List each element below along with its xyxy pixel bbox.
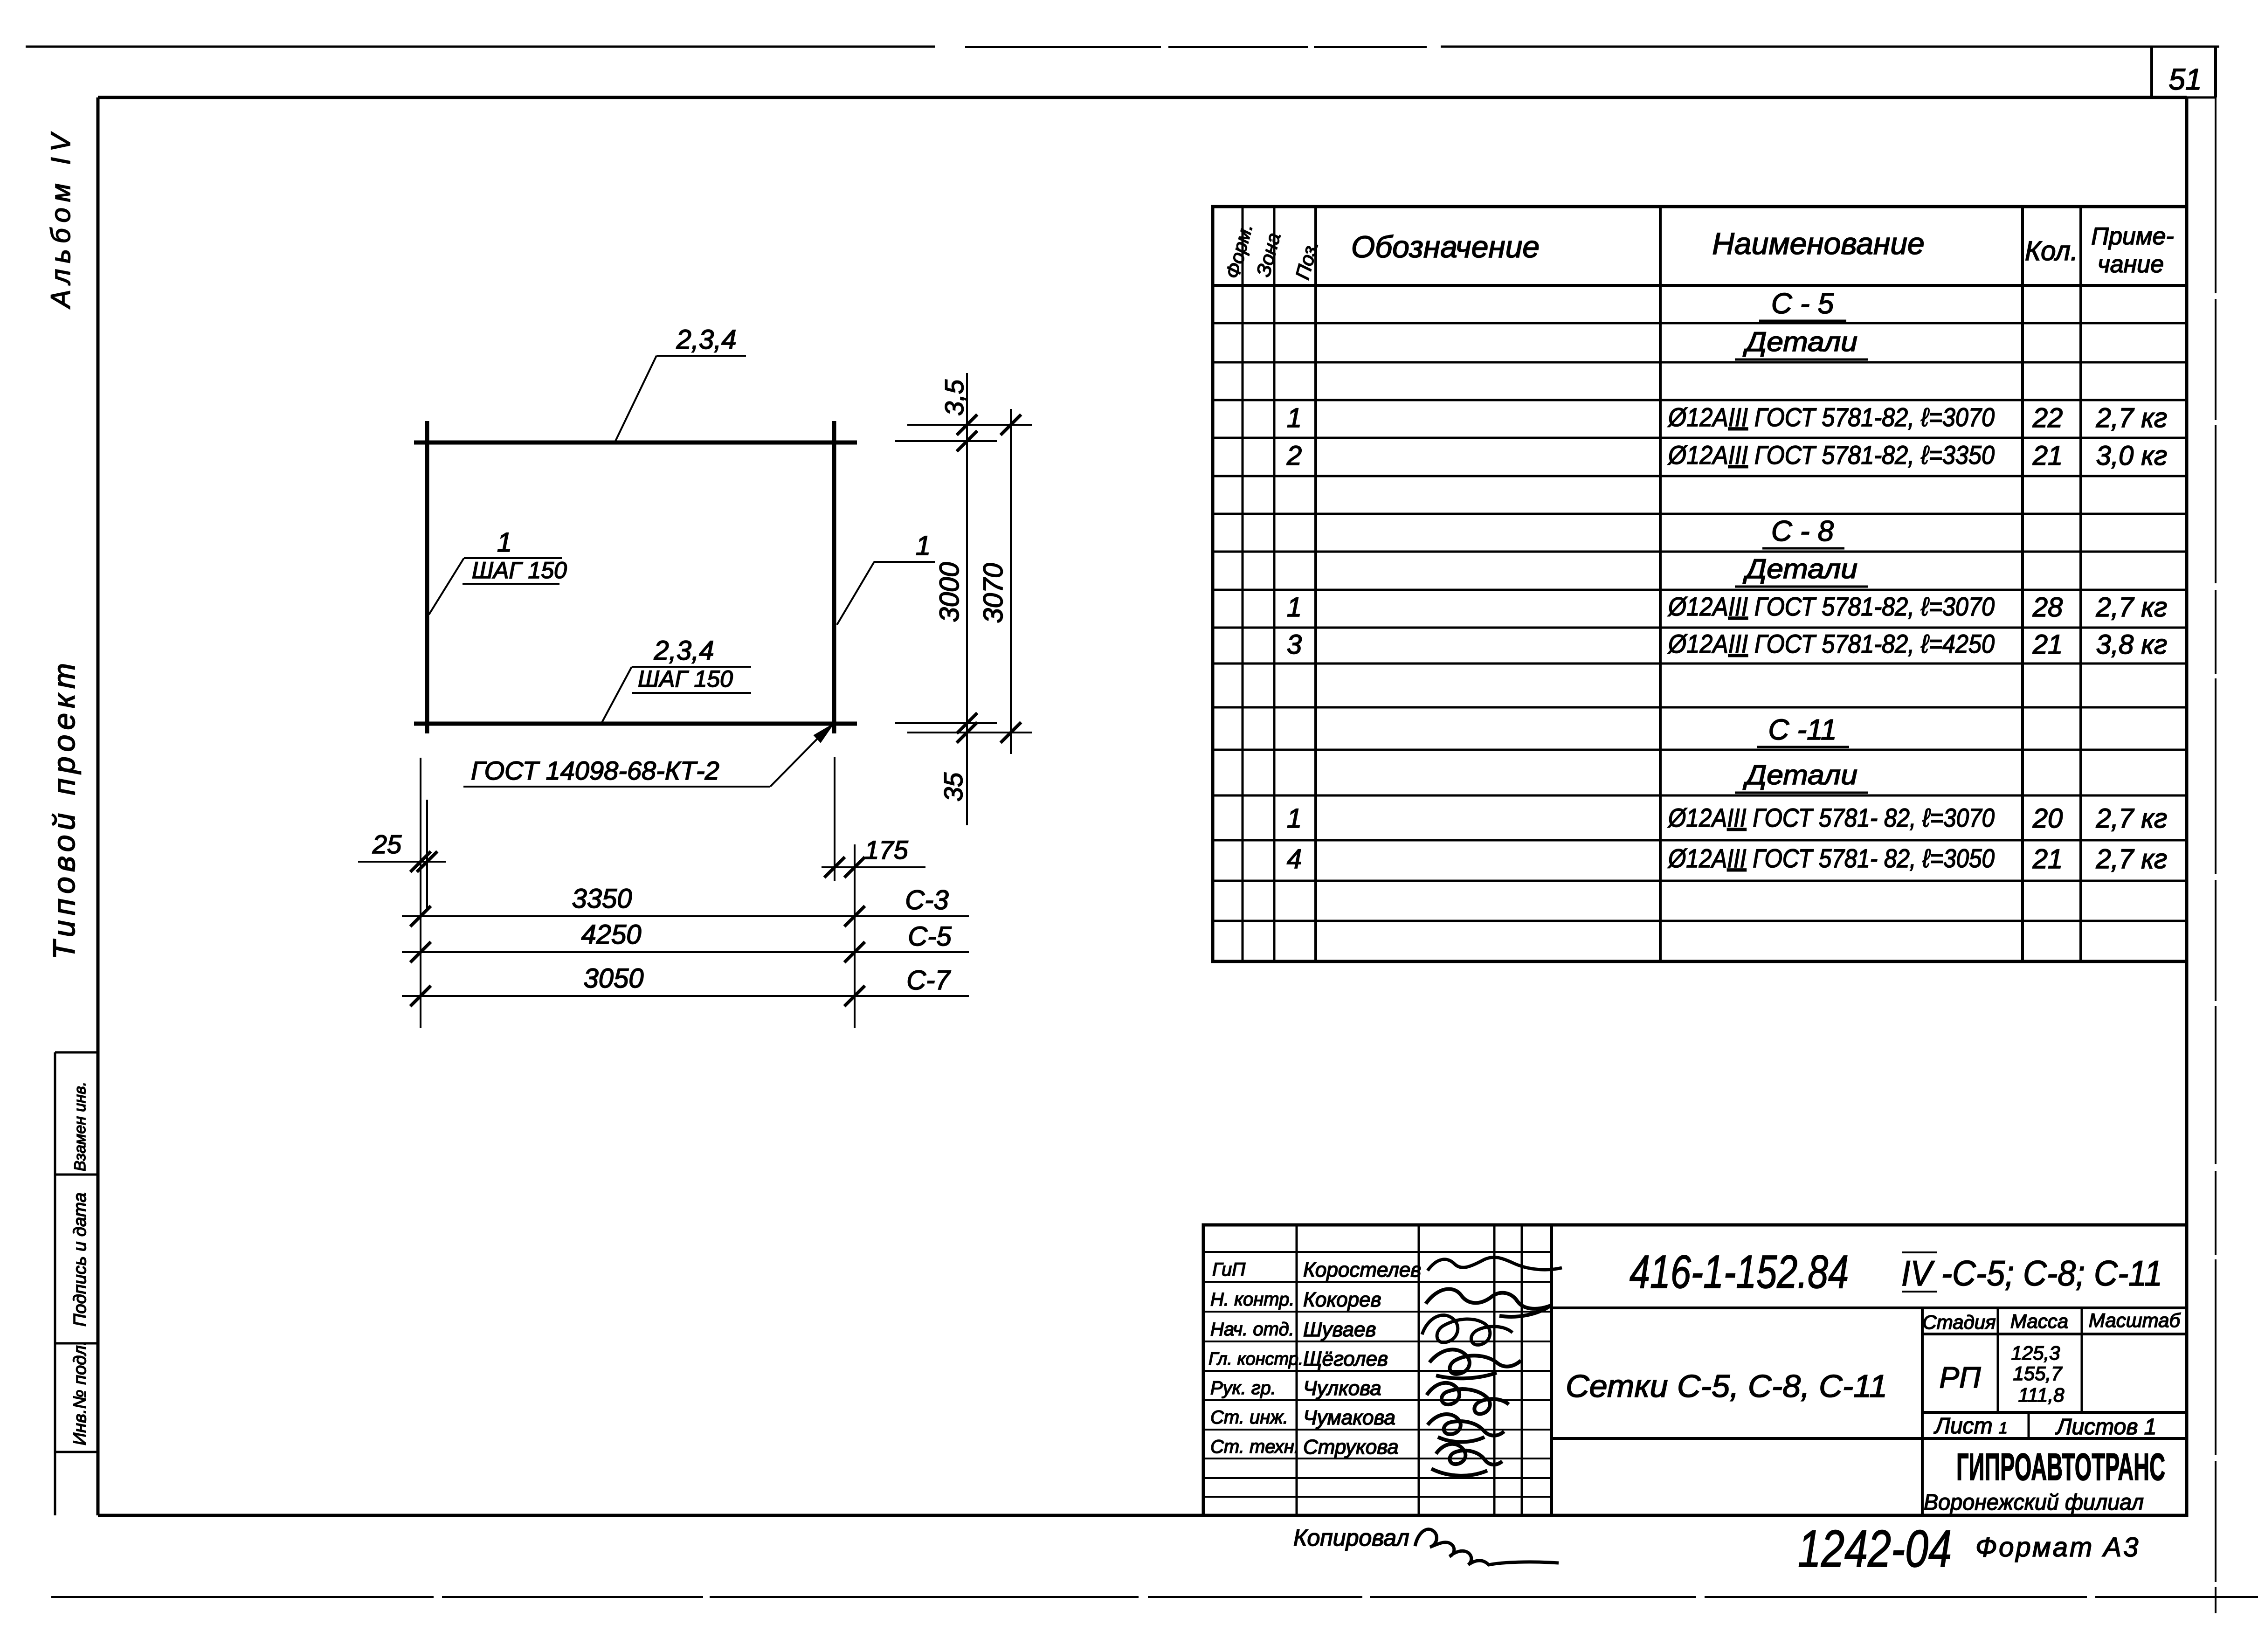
title block left row lines [1203,1252,1552,1497]
svg-text:Ø12АIII ГОСТ 5781-82, ℓ=3350: Ø12АIII ГОСТ 5781-82, ℓ=3350 [1667,440,1995,470]
svg-text:Типовой проект: Типовой проект [47,658,81,960]
left margin stamp boxes [55,1052,98,1515]
svg-text:Чумакова: Чумакова [1303,1406,1395,1429]
svg-text:С - 8: С - 8 [1771,515,1834,547]
dim line 4250 / C-5 [402,919,969,962]
svg-text:ГИПРОАВТОТРАНС: ГИПРОАВТОТРАНС [1956,1446,2165,1488]
svg-text:Ø12АIII ГОСТ 5781-82, ℓ=3070: Ø12АIII ГОСТ 5781-82, ℓ=3070 [1667,402,1995,432]
svg-text:3: 3 [1287,629,1302,660]
title block frame [1203,1225,2187,1515]
doc suffix IV-C-5;C-8;C-11 [1901,1252,2162,1293]
svg-text:3000: 3000 [934,562,965,622]
svg-text:Детали: Детали [1742,760,1857,790]
svg-text:Гл. констр.: Гл. констр. [1208,1349,1303,1369]
svg-text:Рук. гр.: Рук. гр. [1210,1378,1276,1398]
svg-text:20: 20 [2032,803,2063,834]
svg-text:С-7: С-7 [906,965,951,995]
leader label 1 right [837,531,935,625]
mesh left edge bar [425,421,429,733]
title block right structure [1552,1308,2187,1515]
svg-text:Воронежский филиал: Воронежский филиал [1924,1490,2144,1515]
signature 6 [1428,1414,1504,1442]
svg-text:22: 22 [2032,403,2063,433]
svg-text:Приме-: Приме- [2091,223,2174,250]
svg-text:Детали: Детали [1742,554,1857,584]
svg-text:Масштаб: Масштаб [2089,1309,2181,1331]
svg-text:1: 1 [1287,803,1302,834]
svg-text:Наименование: Наименование [1712,226,1925,261]
svg-text:Копировал: Копировал [1293,1525,1409,1551]
svg-text:2,3,4: 2,3,4 [676,325,737,355]
svg-text:2,7 кг: 2,7 кг [2096,403,2168,433]
svg-text:3070: 3070 [978,563,1008,623]
mesh top bar [414,441,857,445]
left extension line short [426,800,428,908]
svg-text:ШАГ 150: ШАГ 150 [472,557,567,583]
svg-text:Коростелев: Коростелев [1303,1258,1421,1281]
dim 25 [358,829,446,872]
right dim extension line outer bottom [907,732,1032,733]
svg-text:Шуваев: Шуваев [1303,1318,1376,1341]
svg-text:Струкова: Струкова [1303,1436,1399,1458]
svg-text:4250: 4250 [581,919,641,950]
svg-text:1242-04: 1242-04 [1798,1520,1952,1578]
svg-text:1: 1 [1287,403,1302,433]
section title C-5 [1759,288,1846,321]
svg-text:35: 35 [939,772,968,802]
svg-text:4: 4 [1287,844,1302,874]
svg-text:Щёголев: Щёголев [1303,1348,1388,1370]
row pos 1 C-11 [1287,803,2168,834]
svg-text:155,7: 155,7 [2013,1362,2063,1384]
svg-text:Кокорев: Кокорев [1303,1288,1381,1311]
svg-text:175: 175 [864,835,908,864]
signature 7 [1431,1444,1502,1476]
leader label GOST weld [463,724,833,787]
svg-text:21: 21 [2032,844,2063,874]
right dim extension line inner top [895,440,997,442]
row pos 1 C-5 [1287,402,2168,433]
svg-text:IV -С-5; С-8; С-11: IV -С-5; С-8; С-11 [1901,1254,2162,1293]
section subtitle Detali 2 [1735,554,1868,587]
leader label 1 / shag 150 left [429,527,567,615]
svg-text:3,5: 3,5 [939,379,969,416]
svg-text:Кол.: Кол. [2025,236,2078,266]
svg-text:Ø12АIII ГОСТ 5781- 82, ℓ=3070: Ø12АIII ГОСТ 5781- 82, ℓ=3070 [1667,803,1995,832]
svg-text:Стадия: Стадия [1922,1311,1996,1333]
svg-text:111,8: 111,8 [2018,1384,2065,1406]
svg-text:Сетки С-5, С-8, С-11: Сетки С-5, С-8, С-11 [1566,1369,1887,1404]
svg-text:ШАГ 150: ШАГ 150 [638,666,733,692]
svg-text:25: 25 [372,829,402,859]
leader label 2,3,4 / shag 150 middle [601,636,751,724]
svg-text:Чулкова: Чулкова [1303,1377,1381,1400]
svg-text:2,7 кг: 2,7 кг [2096,844,2168,874]
dim line 3050 / C-7 [402,963,969,1006]
row pos 4 C-11 [1287,843,2168,874]
svg-text:ГиП: ГиП [1212,1259,1246,1280]
svg-text:Формат А3: Формат А3 [1975,1532,2140,1562]
svg-text:Н. контр.: Н. контр. [1210,1289,1295,1310]
svg-text:3,8 кг: 3,8 кг [2096,629,2168,660]
mesh bottom bar [414,722,857,726]
row pos 2 C-5 [1286,440,2168,471]
svg-text:Масса: Масса [2010,1310,2068,1332]
svg-text:С -11: С -11 [1768,714,1837,746]
signature 3 [1422,1315,1512,1345]
svg-text:28: 28 [2032,592,2063,622]
right dim extension line inner bottom [895,722,997,724]
svg-text:125,3: 125,3 [2011,1342,2060,1364]
svg-text:С - 5: С - 5 [1771,288,1834,320]
svg-text:Взамен инв.: Взамен инв. [71,1082,89,1171]
left extension line long [420,758,421,1028]
dim line 3000 [934,373,977,825]
row pos 1 C-8 [1287,592,2168,622]
svg-text:Лист 1: Лист 1 [1933,1414,2008,1438]
svg-text:1: 1 [497,527,512,558]
svg-text:РП: РП [1939,1361,1981,1394]
dim 175 [822,835,925,878]
svg-text:21: 21 [2032,441,2063,471]
svg-text:Ст. инж.: Ст. инж. [1210,1407,1288,1428]
sheet number box 51 [2152,47,2216,97]
svg-text:2,3,4: 2,3,4 [654,636,714,666]
signature 5 [1427,1383,1509,1414]
specification table frame [1213,207,2187,961]
svg-text:416-1-152.84: 416-1-152.84 [1630,1246,1849,1298]
right extension line long [854,844,856,1028]
drawing frame border [98,97,2187,1515]
mass values [2011,1342,2065,1406]
svg-text:Ø12АIII ГОСТ 5781- 82, ℓ=3050: Ø12АIII ГОСТ 5781- 82, ℓ=3050 [1667,843,1995,873]
svg-text:чание: чание [2098,251,2164,278]
top scan edge line [26,46,935,48]
svg-text:3,0 кг: 3,0 кг [2096,441,2168,471]
table header: primechanie [2091,223,2174,278]
svg-text:Ø12АIII ГОСТ 5781-82, ℓ=3070: Ø12АIII ГОСТ 5781-82, ℓ=3070 [1667,592,1995,621]
svg-text:С-5: С-5 [908,921,952,952]
signature 4 [1429,1349,1521,1378]
right dim extension line outer top [907,424,1032,426]
mesh right edge bar [832,421,836,733]
table row lines [1213,323,2187,921]
svg-text:1: 1 [1287,592,1302,622]
svg-text:2: 2 [1286,441,1302,471]
kopiroval signature [1415,1529,1559,1565]
leader label 2,3,4 top [615,325,746,443]
svg-text:21: 21 [2032,629,2063,660]
svg-text:Листов 1: Листов 1 [2055,1415,2157,1439]
section title C-11 [1757,714,1849,747]
bottom paper edge dashed line [51,1596,2258,1598]
section subtitle Detali 1 [1735,327,1868,359]
svg-text:2,7 кг: 2,7 кг [2096,592,2168,622]
signature 2 [1426,1289,1551,1316]
dim line 3070 [978,409,1021,754]
section subtitle Detali 3 [1735,760,1868,793]
svg-text:Обозначение: Обозначение [1351,229,1540,264]
svg-text:Инв.№ подл.: Инв.№ подл. [70,1341,90,1445]
svg-text:ГОСТ 14098-68-КТ-2: ГОСТ 14098-68-КТ-2 [471,756,719,785]
right mesh edge extension [834,757,836,881]
svg-text:Ø12АIII ГОСТ 5781-82, ℓ=4250: Ø12АIII ГОСТ 5781-82, ℓ=4250 [1667,629,1995,658]
svg-text:Подпись и дата: Подпись и дата [70,1193,90,1327]
svg-text:Нач. отд.: Нач. отд. [1210,1319,1294,1340]
svg-text:2,7 кг: 2,7 кг [2096,803,2168,834]
svg-text:3050: 3050 [583,963,643,994]
svg-text:1: 1 [916,531,931,561]
svg-text:Ст. техн.: Ст. техн. [1210,1437,1299,1457]
signature 1 [1428,1257,1562,1271]
svg-text:С-3: С-3 [905,885,948,915]
svg-text:Альбом IV: Альбом IV [46,128,76,309]
row pos 3 C-8 [1287,629,2168,660]
right paper edge line [2215,97,2217,1613]
section title C-8 [1762,515,1844,548]
svg-text:Детали: Детали [1742,327,1857,357]
svg-text:51: 51 [2168,62,2202,96]
dim line 3350 / C-3 [402,884,969,926]
svg-text:3350: 3350 [572,884,632,914]
